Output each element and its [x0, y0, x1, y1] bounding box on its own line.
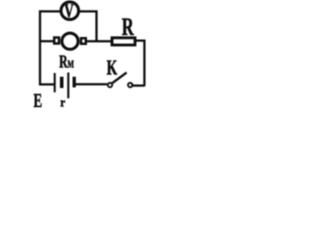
battery plate thick 2 [73, 77, 76, 88]
wire bottom left to battery [39, 83, 55, 85]
svg-text:E: E [33, 89, 42, 112]
switch K left contact [108, 83, 112, 87]
svg-text:r: r [60, 95, 65, 110]
wire motor right to resistor [86, 40, 112, 42]
wire resistor right and down right rail [136, 41, 144, 86]
motor left brush square [54, 38, 59, 44]
battery plate thick 1 [60, 77, 64, 88]
switch K blade [112, 73, 126, 84]
battery plate long 2 [67, 73, 69, 99]
wire motor row left [40, 40, 54, 42]
wire bottom right from switch to right rail [131, 84, 145, 86]
motor M circle [62, 33, 78, 49]
wire top-left from left rail to voltmeter [40, 11, 60, 84]
wire voltmeter right to top-right corner and down [80, 11, 97, 41]
voltmeter U1 circle [61, 2, 79, 20]
switch K right contact [128, 83, 132, 87]
svg-text:V: V [64, 0, 74, 22]
svg-text:K: K [107, 56, 118, 80]
svg-text:R: R [122, 12, 134, 40]
battery plate long 1 [54, 73, 56, 92]
motor right brush square [81, 38, 86, 44]
wire battery to switch [76, 83, 108, 85]
svg-text:M: M [67, 58, 74, 70]
resistor R body [112, 38, 135, 45]
